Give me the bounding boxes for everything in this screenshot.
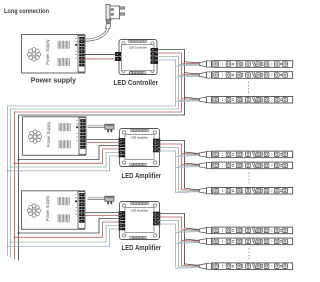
- LED strip 6: [212, 187, 293, 194]
- svg-text:Power supply: Power supply: [31, 76, 76, 85]
- LED strip 9: [212, 263, 293, 270]
- svg-text:LED Amplifier: LED Amplifier: [122, 243, 162, 252]
- LED strip 7: [212, 227, 293, 234]
- LED strip 3: [212, 96, 293, 103]
- wire: bus branch row3 R: [15, 222, 120, 237]
- wire: PS2 V+ (black) to amplifier U2: [86, 139, 120, 141]
- wire: amplifier U3 output R: [158, 217, 182, 229]
- wire: PS1 V- (red) to controller: [85, 58, 116, 60]
- wire: amplifier U2 output B: [158, 151, 176, 193]
- wire: PS3 V+ (black) to amplifier U3: [85, 212, 120, 214]
- LED strip 8 connector: [199, 238, 211, 244]
- continuation dashes row 2: [248, 172, 250, 183]
- wire: controller output G (green) long connection bus: [11, 57, 179, 258]
- continuation dashes row 1: [248, 82, 250, 95]
- wire: branches to strip 4: [176, 152, 201, 157]
- LED amplifier U3: [119, 202, 161, 240]
- wire: branches to strip 1: [176, 62, 201, 67]
- LED strip 6 connector: [199, 188, 211, 194]
- wire: branches to strip 3: [176, 97, 201, 102]
- wire: amplifier U2 output R: [158, 144, 182, 190]
- wire: amplifier U2 output G: [158, 148, 179, 192]
- LED strip 7 connector: [199, 227, 211, 233]
- junction dots row2: [7, 159, 20, 172]
- wire: amplifier U2 output K: [158, 141, 185, 189]
- wire: controller output K (dark) long connection bus: [19, 50, 185, 261]
- LED strip 5: [212, 162, 293, 169]
- wire: bus branch row2 K: [19, 146, 120, 160]
- LED strip 1 connector: [199, 61, 211, 67]
- LED controller U1: [115, 40, 158, 75]
- wire: branches to strip 8: [176, 239, 201, 244]
- wire: amplifier U3 bundle verticals: [176, 229, 185, 268]
- svg-text:LED Amplifier: LED Amplifier: [122, 171, 162, 180]
- LED strip 2: [212, 72, 293, 79]
- wire: branches to strip 5: [176, 163, 201, 168]
- wire: controller output B (blue) long connection bus: [8, 60, 176, 256]
- junction dots row3: [7, 232, 20, 248]
- wire: bus branch row2 G: [11, 153, 120, 168]
- wire: bus branch row2 R: [15, 149, 120, 163]
- wire: branches to strip 2: [176, 73, 201, 78]
- LED strip 2 connector: [199, 72, 211, 78]
- LED strip 3 connector: [199, 97, 211, 103]
- AC cable from plug P1 to power supply PS1: [84, 28, 108, 40]
- svg-text:Long connection: Long connection: [4, 8, 49, 15]
- wire: amplifier U3 output K: [158, 214, 185, 229]
- LED strip 4: [212, 151, 293, 158]
- LED strip 5 connector: [199, 162, 211, 168]
- AC plug P1: [106, 5, 125, 29]
- wire: amplifier U3 output G: [158, 221, 179, 231]
- LED strip 9 connector: [199, 263, 211, 269]
- wire: bus branch row2 B: [8, 156, 120, 171]
- LED amplifier U2: [119, 129, 161, 167]
- wire: branches to strip 9: [176, 264, 201, 269]
- wire: bus branch row3 K: [19, 219, 120, 234]
- power supply PS1: [22, 35, 86, 74]
- wire: controller output R (red) long connection bus: [15, 53, 182, 259]
- continuation dashes row 3: [248, 248, 250, 259]
- wire: amplifier U3 output B: [158, 224, 176, 231]
- DC plug P2: [88, 124, 115, 132]
- wire: bus branch row3 G: [11, 226, 120, 243]
- power supply PS3: [22, 191, 86, 230]
- wire: PS2 V- (red) to amplifier U2: [86, 142, 120, 144]
- wire: PS3 V- (red) to amplifier U3: [85, 215, 120, 217]
- LED strip 8: [212, 238, 293, 245]
- wire: branches to strip 6: [176, 188, 201, 193]
- LED strip 4 connector: [199, 151, 211, 157]
- LED strip 1: [212, 61, 293, 68]
- wire: bus branch row3 B: [8, 229, 120, 247]
- wire: branches to strip 7: [176, 228, 201, 233]
- wire: PS1 V+ (black) to controller: [85, 53, 116, 55]
- DC plug P3: [88, 196, 115, 204]
- svg-text:LED Controller: LED Controller: [114, 78, 159, 87]
- power supply PS2: [23, 117, 87, 156]
